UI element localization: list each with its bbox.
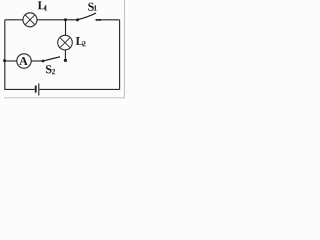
label S2 [46,65,55,74]
wire branch vertical (top node to lamp L2) [65,20,67,36]
wire top-right segment (S1 contact to right corner) [96,19,120,21]
node junction left wire (middle branch) [3,59,6,62]
label L1 [38,1,47,10]
wire bottom-left segment (left corner down and to battery) [5,20,35,90]
border shadow right [123,0,125,98]
node junction (L2 branch to S2 contact) [64,59,67,62]
wire right side [119,20,121,90]
wire middle (ammeter to S2 pivot) [31,60,43,62]
label L2 [76,37,86,46]
switch S2 [42,57,60,63]
wire branch vertical (lamp L2 to bottom node) [64,50,66,61]
wire top-left segment (left corner to lamp L1) [5,19,23,21]
label S1 [88,3,97,11]
lamp L2 [58,35,73,50]
battery cell [36,83,39,95]
wire top middle (lamp L1 to switch S1 pivot) [37,19,78,21]
lamp L1 [23,13,37,27]
ammeter A [17,54,31,68]
wire middle-left (left wire to ammeter) [5,60,17,62]
border shadow bottom [4,97,125,99]
switch S1 [76,13,96,21]
wire bottom-right segment (battery to right corner) [39,88,119,90]
node junction top (branch to L2) [64,18,67,21]
